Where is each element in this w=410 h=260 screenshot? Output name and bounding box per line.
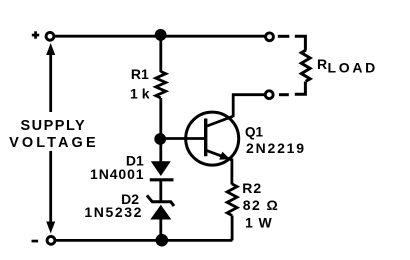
svg-text:1 k: 1 k (130, 86, 150, 102)
wire: R1 to base junction (159, 98, 162, 139)
wire: dashed link RLOAD to lower terminal (279, 82, 305, 95)
label: RLOAD (317, 56, 378, 76)
resistor R1 (156, 72, 166, 99)
terminal: load terminal upper (266, 33, 274, 41)
svg-text:1N4001: 1N4001 (90, 166, 144, 182)
wire: emitter down to R2 (230, 159, 233, 185)
wire: bottom rail from - terminal to R2 (56, 239, 232, 241)
svg-text:1 W: 1 W (245, 215, 273, 231)
node: junction dot bottom rail / diode string (156, 234, 169, 247)
svg-text:1N5232: 1N5232 (84, 204, 143, 220)
wire: junction to D1 anode (159, 139, 162, 162)
terminal: - supply terminal (47, 237, 55, 245)
node: junction dot top rail / R1 (155, 29, 167, 41)
wire: supply voltage arrow line lower (46, 151, 55, 233)
resistor RLOAD (301, 50, 310, 81)
terminal: load terminal lower (265, 91, 273, 99)
node: junction dot base / diode string (154, 133, 166, 145)
svg-text:VOLTAGE: VOLTAGE (9, 135, 99, 151)
wire: supply voltage arrow line upper (46, 43, 55, 112)
label: R1 value (130, 66, 150, 102)
wire: dashed link upper terminal to RLOAD (278, 36, 306, 50)
label: + sign (32, 31, 39, 38)
wire: R2 to bottom rail corner (231, 216, 232, 240)
svg-text:R1: R1 (131, 66, 149, 82)
svg-text:R: R (317, 56, 327, 72)
wire: left rail from top rail to R1 (159, 36, 162, 72)
svg-text:Q1: Q1 (245, 125, 264, 140)
label: - sign (32, 240, 39, 243)
diode D1 1N4001 (150, 161, 174, 180)
wire: D2 anode to bottom rail (159, 220, 162, 241)
label: SUPPLY VOLTAGE (9, 118, 99, 151)
svg-text:LOAD: LOAD (328, 59, 378, 75)
wire: collector up and right to load terminal (233, 95, 265, 117)
svg-text:2N2219: 2N2219 (246, 140, 306, 156)
wire: base wire to Q1 (161, 137, 206, 140)
wire: D1 cathode to D2 cathode (159, 180, 162, 202)
svg-text:82 Ω: 82 Ω (243, 197, 279, 213)
diode D2 zener 1N5232 (147, 195, 174, 219)
transistor Q1 2N2219 (186, 112, 239, 165)
svg-text:R2: R2 (242, 180, 262, 196)
resistor R2 (227, 184, 237, 216)
terminal: + supply terminal (46, 32, 54, 40)
wire: top rail from + terminal to load terminal (55, 35, 266, 38)
svg-text:SUPPLY: SUPPLY (20, 118, 86, 134)
